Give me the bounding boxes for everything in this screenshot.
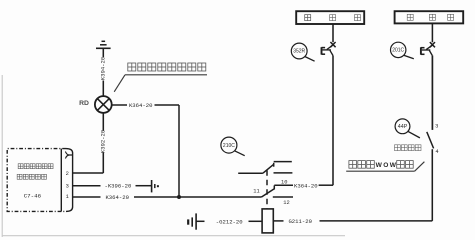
svg-text:K364-20: K364-20 xyxy=(129,102,153,109)
svg-text:-K396-20: -K396-20 xyxy=(104,183,131,190)
svg-text:10: 10 xyxy=(281,179,287,185)
svg-text:11: 11 xyxy=(253,189,259,195)
svg-text:G211-20: G211-20 xyxy=(288,218,312,225)
svg-text:3: 3 xyxy=(435,124,438,130)
svg-text:K364-20: K364-20 xyxy=(105,194,129,201)
svg-text:352R: 352R xyxy=(293,49,305,55)
svg-text:2: 2 xyxy=(66,171,69,177)
svg-text:3: 3 xyxy=(66,183,69,189)
svg-text:201C: 201C xyxy=(392,48,404,54)
svg-text:K392-20: K392-20 xyxy=(100,129,107,153)
svg-text:RD: RD xyxy=(79,100,89,107)
svg-text:210C: 210C xyxy=(223,143,235,149)
svg-text:1: 1 xyxy=(66,194,69,200)
svg-text:K394-20: K394-20 xyxy=(100,56,107,80)
svg-text:-G212-20: -G212-20 xyxy=(216,218,243,225)
svg-text:WOW: WOW xyxy=(376,162,398,169)
svg-text:12: 12 xyxy=(283,200,289,206)
svg-text:44P: 44P xyxy=(398,124,408,130)
svg-text:4: 4 xyxy=(435,149,438,155)
svg-text:K364-20: K364-20 xyxy=(294,182,318,189)
svg-text:C7-46: C7-46 xyxy=(24,192,42,199)
